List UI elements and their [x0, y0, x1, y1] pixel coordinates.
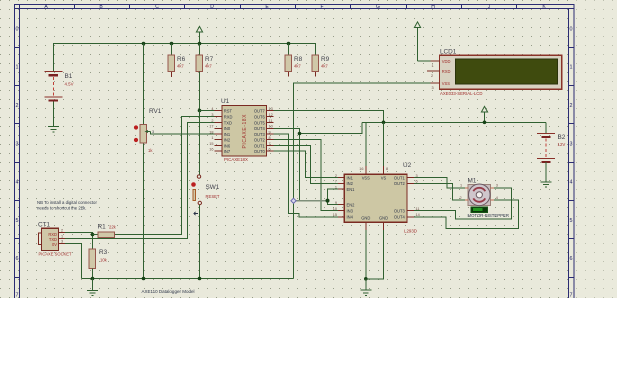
IC U1 PICAXE-18X	[209, 98, 273, 162]
svg-text:17: 17	[209, 125, 213, 129]
svg-text:3: 3	[152, 130, 154, 134]
svg-text:15: 15	[209, 142, 213, 146]
svg-text:needs to shortcut the 22k.: needs to shortcut the 22k.	[37, 206, 86, 211]
svg-text:0V: 0V	[52, 242, 57, 247]
resistor R8	[285, 44, 302, 77]
svg-text:6: 6	[16, 256, 19, 262]
svg-text:10: 10	[269, 125, 273, 129]
svg-text:2: 2	[61, 229, 63, 233]
wire CT1 pin3 to bus	[65, 244, 82, 279]
svg-text:1: 1	[16, 65, 19, 71]
svg-text:2: 2	[431, 74, 433, 78]
svg-text:G: G	[376, 4, 380, 10]
svg-text:4: 4	[211, 107, 213, 111]
svg-text:IN6: IN6	[224, 143, 231, 148]
svg-text:16: 16	[209, 148, 213, 152]
svg-text:LCD1: LCD1	[440, 49, 457, 56]
resistor R1	[93, 224, 117, 238]
battery B2	[537, 122, 566, 182]
note text	[37, 200, 97, 211]
svg-text:3: 3	[211, 113, 213, 117]
svg-text:OUT1: OUT1	[394, 175, 406, 180]
svg-text:VS: VS	[381, 175, 387, 180]
svg-text:7: 7	[570, 293, 573, 299]
svg-text:IN2: IN2	[347, 181, 354, 186]
power arrow above LCD	[414, 22, 420, 61]
svg-text:7: 7	[335, 180, 337, 184]
node R1/R3 junction	[91, 233, 95, 237]
svg-text:C: C	[155, 4, 159, 10]
svg-text:TXD: TXD	[224, 120, 232, 125]
svg-text:IN1: IN1	[347, 175, 354, 180]
svg-text:3: 3	[432, 86, 434, 90]
svg-text:15: 15	[333, 213, 337, 217]
node marker diamond	[291, 198, 296, 203]
svg-text:6: 6	[269, 148, 271, 152]
motor M1 stepper	[460, 178, 509, 219]
svg-text:U2: U2	[403, 162, 412, 169]
svg-text:1: 1	[570, 65, 573, 71]
svg-text:VDD: VDD	[442, 59, 451, 64]
wire bottom 0V bus	[82, 278, 294, 280]
svg-text:PICAXE SOCKET: PICAXE SOCKET	[39, 251, 72, 256]
svg-text:4k7: 4k7	[177, 64, 184, 69]
svg-text:12V: 12V	[558, 142, 566, 147]
svg-text:4: 4	[16, 180, 19, 186]
svg-text:U1: U1	[221, 98, 230, 105]
svg-text:1: 1	[335, 186, 337, 190]
svg-text:R8: R8	[294, 56, 303, 63]
svg-text:10k: 10k	[100, 258, 108, 263]
wire U2 OUT4 to M1 pin4	[414, 200, 519, 229]
svg-text:2: 2	[570, 103, 573, 109]
svg-text:5: 5	[16, 218, 19, 224]
svg-text:EN2: EN2	[347, 202, 356, 207]
wire rail to U2 VSS	[365, 122, 367, 166]
wire VS stub down	[383, 122, 385, 166]
svg-text:1: 1	[61, 235, 63, 239]
pot RV1	[134, 44, 215, 278]
svg-text:9: 9	[335, 201, 337, 205]
svg-text:GND: GND	[361, 216, 370, 221]
svg-text:10: 10	[333, 207, 337, 211]
wire TXD: U1 to CT1	[65, 123, 215, 239]
svg-text:4: 4	[570, 180, 573, 186]
svg-text:4k7: 4k7	[294, 64, 301, 69]
battery B1	[45, 72, 74, 127]
svg-text:8: 8	[269, 136, 271, 140]
svg-text:B2: B2	[558, 134, 566, 141]
svg-text:OUT3: OUT3	[394, 209, 406, 214]
svg-text:IN0: IN0	[224, 126, 231, 131]
node VS tap	[382, 121, 386, 125]
node link junction	[298, 132, 302, 136]
wire OUT1 to U2 IN2	[274, 146, 339, 184]
svg-text:16: 16	[359, 167, 363, 171]
switch SW1	[191, 111, 220, 278]
svg-text:3: 3	[496, 184, 498, 188]
svg-text:3: 3	[570, 141, 573, 147]
wire OUT3 to U2 IN4	[274, 134, 339, 217]
node U2 gnd junction	[364, 277, 368, 281]
wire U2 OUT1 to M1 pin1	[414, 178, 465, 188]
svg-text:CT1: CT1	[38, 222, 51, 229]
svg-text:GND: GND	[379, 216, 388, 221]
svg-text:IN7: IN7	[224, 149, 231, 154]
svg-text:OUT4: OUT4	[254, 126, 266, 131]
svg-text:22k: 22k	[109, 225, 117, 230]
node supply arrow junction	[483, 121, 487, 125]
svg-text:M1: M1	[468, 178, 477, 185]
svg-text:12: 12	[269, 113, 273, 117]
svg-text:D: D	[210, 4, 214, 10]
svg-text:OUT6: OUT6	[254, 114, 266, 119]
svg-text:3: 3	[61, 240, 63, 244]
svg-text:R6: R6	[177, 56, 186, 63]
svg-text:RXD: RXD	[224, 114, 233, 119]
svg-text:R7: R7	[205, 56, 214, 63]
svg-text:OUT0: OUT0	[254, 149, 266, 154]
svg-text:AXE110 Datalogger Model: AXE110 Datalogger Model	[142, 289, 195, 294]
svg-text:5: 5	[570, 218, 573, 224]
svg-text:13: 13	[269, 107, 273, 111]
ground under U2	[360, 279, 371, 296]
svg-text:2: 2	[460, 196, 462, 200]
wire U2 OUT2 to M1 pin2	[414, 183, 465, 199]
resistor R3	[89, 249, 107, 278]
svg-text:1: 1	[211, 136, 213, 140]
svg-text:2: 2	[335, 174, 337, 178]
svg-text:F: F	[320, 4, 323, 10]
wire top supply bus	[54, 44, 316, 72]
ground below B1	[48, 127, 59, 132]
ground below B2	[541, 182, 552, 187]
wire link to EN node	[299, 134, 301, 201]
svg-text:IN2: IN2	[224, 138, 231, 143]
svg-text:PICAXE-18X: PICAXE-18X	[242, 114, 248, 149]
wire U2 GND right	[366, 230, 384, 279]
svg-text:R9: R9	[321, 56, 330, 63]
wire U2 OUT3 to M1 pin3	[414, 188, 511, 219]
svg-text:OUT3: OUT3	[254, 132, 266, 137]
node dots on bottom bus	[91, 277, 202, 281]
svg-text:11: 11	[269, 119, 273, 123]
svg-text:EN1: EN1	[347, 187, 356, 192]
wire OUT0 to U2 IN1	[274, 151, 339, 177]
svg-text:8: 8	[386, 167, 388, 171]
svg-text:2: 2	[16, 103, 19, 109]
wire OUT4 to link	[274, 128, 300, 133]
svg-text:MOTOR-BISTEPPER: MOTOR-BISTEPPER	[468, 213, 509, 218]
IC U2 L293D	[333, 162, 420, 234]
svg-text:NB To install a digital connec: NB To install a digital connector	[37, 200, 97, 205]
svg-text:9: 9	[269, 130, 271, 134]
svg-text:4k7: 4k7	[205, 64, 212, 69]
svg-text:RV1: RV1	[149, 108, 162, 115]
svg-text:OUT2: OUT2	[394, 181, 406, 186]
svg-text:L293D: L293D	[404, 229, 417, 234]
svg-text:PICAXE18X: PICAXE18X	[224, 157, 248, 162]
svg-text:H: H	[431, 4, 435, 10]
svg-text:AXE033-SERIAL-LCD: AXE033-SERIAL-LCD	[440, 91, 483, 96]
wire RXD: U1 to R1	[115, 117, 215, 235]
svg-text:RESET: RESET	[206, 194, 220, 199]
svg-text:RST: RST	[224, 108, 233, 113]
connector CT1 PICAXE SOCKET	[38, 222, 72, 257]
svg-text:OUT1: OUT1	[254, 143, 266, 148]
svg-text:OUT7: OUT7	[254, 108, 266, 113]
svg-text:6: 6	[570, 256, 573, 262]
resistor R6	[168, 44, 186, 78]
svg-text:B1: B1	[65, 73, 73, 80]
svg-text:OUT5: OUT5	[254, 120, 266, 125]
svg-text:R3: R3	[99, 249, 108, 256]
svg-text:4: 4	[496, 196, 498, 200]
svg-text:0: 0	[570, 26, 573, 32]
resistor R9	[312, 55, 329, 77]
wire U2 GND left	[365, 230, 367, 279]
wire RST to U1	[200, 110, 215, 112]
wire R7 to RST node	[199, 72, 201, 111]
wire 0V riser with LCD VSS	[294, 83, 431, 278]
resistor R7	[196, 44, 213, 72]
svg-text:3: 3	[16, 141, 19, 147]
svg-text:4k7: 4k7	[321, 64, 328, 69]
svg-text:IN1: IN1	[224, 132, 231, 137]
wire CT1 pin2 to R1	[65, 233, 93, 250]
display LCD1	[427, 49, 562, 97]
svg-text:1: 1	[432, 64, 434, 68]
svg-text:1: 1	[460, 184, 462, 188]
svg-text:RXD: RXD	[442, 69, 451, 74]
svg-text:OUT4: OUT4	[394, 215, 406, 220]
svg-text:4.5V: 4.5V	[65, 82, 74, 87]
svg-text:VSS: VSS	[362, 175, 370, 180]
svg-text:7: 7	[16, 293, 19, 299]
svg-text:R1: R1	[98, 224, 107, 231]
wire OUT2 to U2 IN3	[274, 140, 339, 211]
wire supply rail	[362, 121, 546, 123]
node EN junction	[326, 199, 330, 203]
svg-text:0: 0	[16, 26, 19, 32]
svg-text:2: 2	[211, 119, 213, 123]
svg-text:IN3: IN3	[347, 209, 354, 214]
svg-text:7: 7	[269, 142, 271, 146]
ground at bottom bus	[87, 279, 98, 296]
wire EN net	[294, 189, 339, 204]
svg-text:18: 18	[209, 130, 213, 134]
svg-text:IN4: IN4	[347, 215, 354, 220]
power arrow above R7	[196, 26, 202, 43]
wire OUT7 to supply rail of U2/B2	[274, 111, 384, 123]
svg-text:VSS: VSS	[442, 81, 450, 86]
svg-text:OUT2: OUT2	[254, 138, 266, 143]
node dots on top bus	[142, 42, 291, 46]
node RST junction	[198, 109, 202, 113]
power arrow on supply rail	[481, 106, 487, 122]
wire rail hook to link	[300, 122, 363, 133]
wire LCD VDD	[418, 60, 431, 62]
svg-text:SW1: SW1	[206, 184, 220, 191]
